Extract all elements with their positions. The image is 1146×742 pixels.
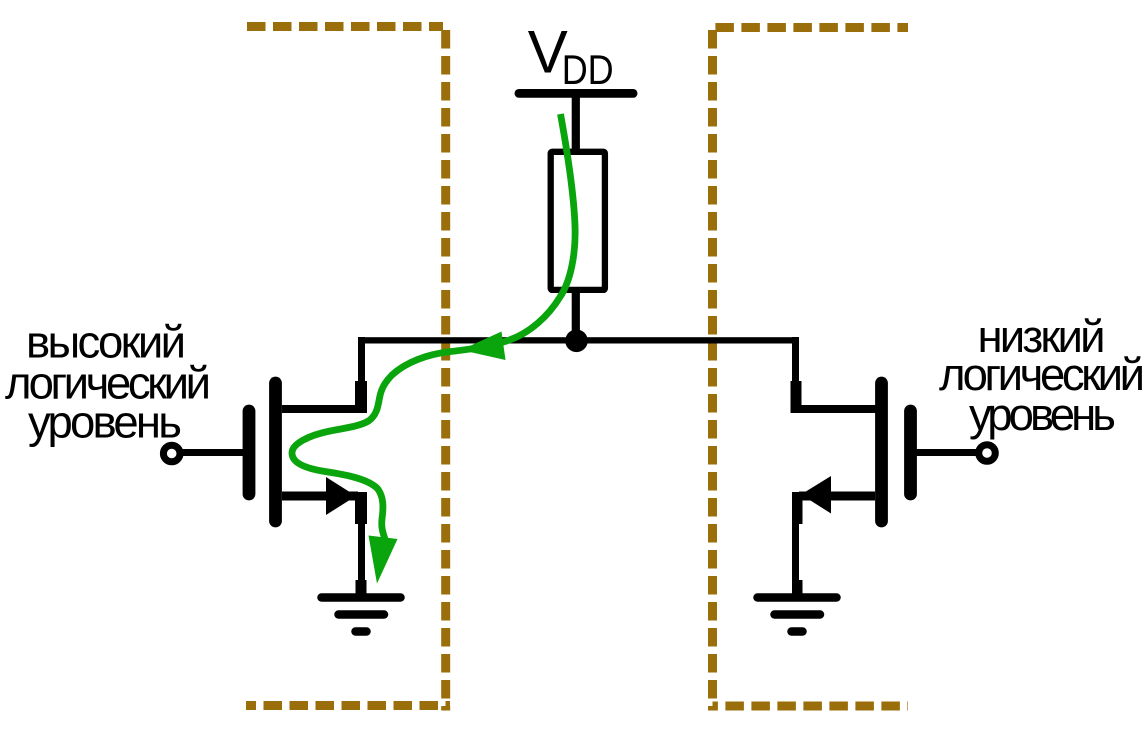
transistor Q2 channel bar <box>875 383 888 521</box>
wire resistor to node <box>572 289 580 341</box>
left source horizontal wire <box>282 492 358 501</box>
right source horizontal wire <box>799 492 875 501</box>
Q2 source arrow (black) <box>801 476 831 514</box>
input terminal circle (left) <box>163 445 180 462</box>
current flow path (green) <box>292 114 575 539</box>
chip boundary left IC (dashed) <box>246 27 450 711</box>
green arrowhead at ground (pointing down) <box>369 536 398 584</box>
left drain horizontal wire <box>282 405 366 413</box>
ground symbol right <box>758 598 837 632</box>
label: low logic level (right) <box>939 311 1145 440</box>
output terminal circle (right) <box>979 445 996 462</box>
VDD power rail bar <box>515 89 638 98</box>
right ground pin stub <box>792 580 803 594</box>
transistor Q1 gate bar <box>243 411 256 494</box>
resistor R pull-up <box>551 152 605 290</box>
wire source to ground (left) <box>358 520 365 582</box>
chip boundary right IC (dashed) <box>713 28 909 711</box>
transistor Q1 channel bar <box>269 383 282 521</box>
right source pin stub <box>792 492 803 524</box>
transistor Q2 gate bar <box>904 411 917 494</box>
wire input to gate Q1 <box>182 449 243 456</box>
wire source to ground (right) <box>792 520 799 582</box>
left source pin stub <box>355 492 367 524</box>
wire gate Q2 to output terminal <box>916 449 976 456</box>
left ground pin stub <box>356 580 367 594</box>
svg-text:уровень: уровень <box>969 389 1116 440</box>
Q1 source arrow (black) <box>326 477 356 515</box>
right drain horizontal wire <box>792 405 876 413</box>
wire left drain vertical <box>358 337 365 409</box>
ground symbol left <box>322 598 401 632</box>
horizontal net wire between drains <box>358 337 799 343</box>
node junction dot <box>565 330 588 353</box>
right drain pin stub <box>791 381 802 413</box>
VDD label <box>528 19 614 93</box>
wire VDD rail to resistor <box>572 96 580 152</box>
wire right drain vertical <box>792 337 799 409</box>
green arrowhead on net wire (pointing left) <box>461 332 506 361</box>
svg-text:уровень: уровень <box>28 397 182 448</box>
left drain pin stub <box>355 381 367 413</box>
label: high logic level (left) <box>5 317 211 448</box>
svg-text:DD: DD <box>562 46 614 93</box>
